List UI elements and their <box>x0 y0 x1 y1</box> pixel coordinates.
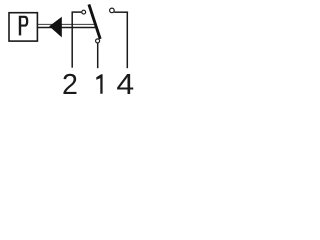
wire terminal 4 vertical <box>126 12 128 68</box>
wire terminal 2 vertical <box>71 12 73 68</box>
label P <box>19 16 29 36</box>
wire terminal 4 horizontal <box>114 11 128 13</box>
svg-text:4: 4 <box>116 70 134 101</box>
pressure sensor box P <box>9 13 37 41</box>
wire terminal 1 <box>97 43 99 68</box>
svg-text:2: 2 <box>62 69 78 101</box>
terminal label 1 <box>96 74 102 94</box>
mechanical link lower line <box>38 27 95 29</box>
pivot circle terminal 1 <box>96 39 100 43</box>
mechanical link upper line <box>38 23 94 25</box>
actuator triangle <box>49 17 62 38</box>
switch lever <box>89 4 100 39</box>
contact circle NO terminal 4 <box>110 8 115 13</box>
contact circle NC terminal 2 <box>82 10 86 14</box>
wire terminal 2 horizontal <box>72 11 82 13</box>
